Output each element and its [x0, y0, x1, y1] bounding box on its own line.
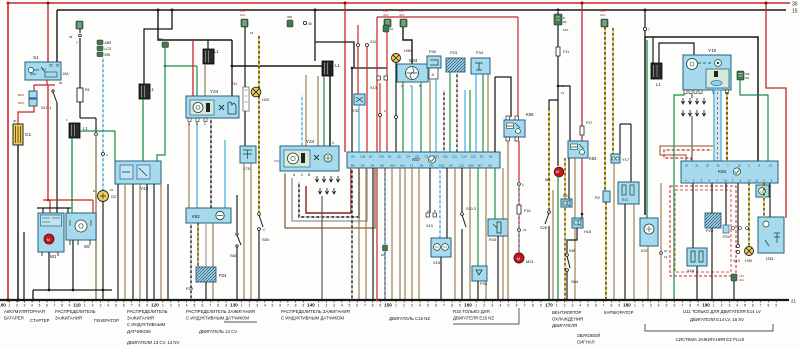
wire horizontal to generator — [80, 117, 96, 119]
svg-text:2: 2 — [248, 304, 250, 308]
svg-text:S10.3: S10.3 — [466, 207, 476, 211]
svg-text:6: 6 — [46, 304, 48, 308]
wire X18 to rail — [696, 266, 698, 300]
junction — [250, 299, 252, 301]
svg-text:H20: H20 — [262, 97, 270, 102]
screen wire dark red U — [306, 167, 351, 213]
svg-text:30: 30 — [13, 119, 17, 123]
junction — [344, 2, 347, 5]
svg-text:7: 7 — [131, 304, 133, 308]
wire red below S1 — [34, 84, 55, 86]
svg-text:X13: X13 — [370, 86, 377, 90]
svg-text:M21: M21 — [526, 259, 535, 264]
wire yellow-black below R2 — [605, 202, 607, 300]
wire red to X57 — [366, 47, 368, 152]
junction — [497, 299, 499, 301]
wire black to X57 — [351, 68, 353, 152]
wire K84 to P24 — [725, 183, 727, 225]
svg-text:GN: GN — [745, 76, 749, 80]
wire P34 cyan — [475, 74, 477, 152]
junction — [124, 299, 126, 301]
wire yellow-black below K63 — [564, 158, 566, 300]
wire red-cyan to F16 — [518, 186, 520, 205]
svg-text:7: 7 — [648, 28, 650, 32]
wire R15 to rail — [497, 236, 499, 300]
Y23 internals — [120, 165, 133, 179]
svg-text:9: 9 — [302, 304, 304, 308]
switch S60 — [236, 233, 238, 235]
fuel pump M21 — [514, 253, 524, 263]
svg-text:ДВИГАТЕЛЯ: ДВИГАТЕЛЯ — [552, 323, 577, 328]
svg-text:3: 3 — [333, 304, 335, 308]
svg-text:7: 7 — [681, 304, 683, 308]
wire cyan Y32 to X57 — [358, 105, 360, 152]
junction — [146, 299, 148, 301]
svg-text:11: 11 — [755, 179, 758, 183]
svg-text:2: 2 — [92, 304, 94, 308]
wire brown to rail — [95, 136, 97, 300]
svg-text:5: 5 — [272, 304, 274, 308]
junction — [258, 299, 260, 301]
wire carb top — [620, 123, 631, 125]
wire branch to S26 — [549, 100, 558, 108]
relay K58 — [504, 120, 525, 137]
wire to M1 — [49, 200, 51, 213]
wire to S6 — [92, 200, 94, 213]
wire into distributor — [231, 66, 233, 96]
wire red to starter feed — [47, 85, 49, 200]
wire R1 down — [79, 102, 81, 118]
wire red enclosure right to K58 — [517, 17, 519, 117]
wire green coil to S6 — [71, 138, 73, 213]
svg-text:D+: D+ — [93, 189, 97, 193]
wire M4 to rail — [557, 176, 559, 300]
wire blue-white dashed diagnostic — [102, 57, 104, 152]
svg-text:D2: D2 — [480, 155, 484, 159]
Y10 internals — [687, 59, 698, 70]
svg-text:8: 8 — [61, 304, 63, 308]
svg-text:7: 7 — [287, 304, 289, 308]
junction — [102, 299, 104, 301]
svg-text:B5: B5 — [380, 164, 384, 168]
sensor P23 mid — [446, 58, 465, 72]
svg-text:140: 140 — [307, 303, 315, 308]
wire F27 to K63 — [581, 135, 583, 141]
wire brown below K58 — [507, 141, 509, 300]
svg-text:16: 16 — [664, 249, 668, 253]
distributor Y26 — [186, 96, 239, 118]
svg-text:РАСПРЕДЕЛИТЕЛЬ ЗАЖИГАНИЯ: РАСПРЕДЕЛИТЕЛЬ ЗАЖИГАНИЯ — [186, 309, 255, 314]
screened cyan cable — [714, 90, 721, 161]
svg-text:D10: D10 — [439, 164, 445, 168]
svg-text:7: 7 — [760, 304, 762, 308]
svg-text:ГЕНЕРАТОР: ГЕНЕРАТОР — [94, 318, 119, 323]
svg-text:LCD: LCD — [105, 47, 112, 51]
pin — [515, 116, 518, 120]
wire red 30 to X57 — [344, 3, 346, 152]
svg-text:15: 15 — [56, 64, 60, 68]
svg-text:13: 13 — [769, 164, 773, 168]
wire branch — [95, 118, 97, 132]
svg-text:8: 8 — [138, 304, 140, 308]
svg-text:M: M — [517, 256, 520, 261]
junction — [485, 299, 487, 301]
wire exciter horizontal — [37, 207, 71, 209]
S1 internals — [28, 67, 33, 72]
wire to fan M4 — [557, 12, 559, 166]
wire terminal 50 to starter — [56, 103, 58, 213]
wire K84 to X13 — [737, 183, 739, 244]
wire to connector — [33, 85, 35, 91]
icon INS left — [162, 42, 169, 48]
wire 15 to ignition switch — [56, 10, 58, 62]
svg-text:СТАРТЕР: СТАРТЕР — [30, 318, 50, 323]
wire — [399, 168, 401, 300]
svg-text:R1: R1 — [85, 88, 90, 92]
connector — [379, 114, 382, 117]
wire green from INS — [164, 48, 166, 66]
svg-text:БАТАРЕЯ: БАТАРЕЯ — [4, 316, 24, 321]
svg-text:61: 61 — [250, 31, 254, 35]
connector X13 right — [736, 244, 739, 247]
EZ section frame — [645, 37, 758, 215]
X18 internals — [691, 251, 695, 262]
svg-text:7: 7 — [54, 304, 56, 308]
svg-text:C16: C16 — [360, 155, 366, 159]
svg-text:10: 10 — [685, 164, 689, 168]
wire grey — [205, 223, 207, 267]
svg-text:S1: S1 — [33, 55, 39, 60]
pin X13 A — [426, 213, 429, 217]
wire — [411, 168, 413, 300]
svg-text:8: 8 — [372, 304, 374, 308]
junction — [552, 299, 554, 301]
svg-text:X13: X13 — [426, 224, 433, 228]
distributor Y24 — [280, 146, 339, 171]
icon D DF — [554, 14, 562, 25]
resistor R1 — [77, 88, 83, 102]
wire K84 to P23 — [711, 183, 713, 213]
svg-text:9: 9 — [775, 304, 777, 308]
svg-text:7: 7 — [76, 41, 78, 45]
connector — [461, 213, 464, 216]
pin — [506, 116, 509, 120]
wire P23 green — [449, 72, 451, 152]
wire black-white dashed to rail — [190, 223, 192, 300]
svg-text:9: 9 — [225, 304, 227, 308]
svg-text:7: 7 — [524, 304, 526, 308]
Y17 internals — [612, 157, 615, 160]
wire — [153, 184, 155, 300]
svg-text:K58: K58 — [526, 112, 534, 117]
svg-text:РАСПРЕДЕЛИТЕЛЬ: РАСПРЕДЕЛИТЕЛЬ — [127, 309, 168, 314]
svg-text:30A: 30A — [600, 13, 605, 17]
wire bend to K58 — [495, 77, 511, 117]
spark plug arrows Y24 row2 — [318, 188, 321, 194]
svg-text:C3: C3 — [425, 155, 429, 159]
wire — [167, 184, 169, 300]
svg-text:G1: G1 — [25, 132, 32, 137]
svg-text:21: 21 — [791, 299, 797, 304]
relay K75 — [240, 146, 256, 163]
wire red X13 to X57 — [379, 83, 381, 152]
junction — [548, 299, 550, 301]
ignition distributor S6 — [66, 213, 96, 240]
wire red enclosure top — [377, 16, 518, 18]
svg-text:4: 4 — [736, 304, 738, 308]
junction — [171, 9, 174, 12]
svg-text:5: 5 — [194, 304, 196, 308]
wire S1 down — [46, 80, 48, 85]
svg-text:F11: F11 — [563, 50, 569, 54]
icon INS GN — [287, 20, 293, 27]
svg-text:R12: R12 — [622, 198, 628, 202]
screen terminal icon — [383, 245, 388, 251]
S6 pin stubs — [70, 240, 90, 245]
junction — [477, 299, 479, 301]
junction — [557, 9, 560, 12]
svg-text:4: 4 — [186, 304, 188, 308]
svg-text:M1: M1 — [50, 254, 57, 259]
K53 internals — [216, 211, 224, 219]
horn H18 — [572, 218, 583, 228]
svg-text:100: 100 — [0, 303, 6, 308]
svg-text:15A: 15A — [63, 72, 70, 76]
wire starter ground — [48, 252, 50, 290]
pin X13 a — [377, 76, 380, 80]
wire cyan Y26 to K53 — [196, 122, 198, 208]
svg-text:30A: 30A — [399, 13, 404, 17]
wire K58 to F16 — [518, 141, 520, 182]
burn-off relay K20 — [640, 218, 658, 246]
bus 15 (black) — [57, 9, 786, 11]
svg-text:ЗВУКОВОЙ: ЗВУКОВОЙ — [577, 333, 600, 338]
svg-text:L1: L1 — [335, 63, 340, 68]
svg-text:1: 1 — [713, 304, 715, 308]
wire feeder black-white — [443, 90, 445, 152]
pin X13 b — [384, 76, 387, 80]
svg-text:16: 16 — [724, 179, 728, 183]
svg-text:9: 9 — [146, 304, 148, 308]
fuse F16 — [517, 205, 521, 214]
wire P33 to rail — [477, 281, 479, 300]
wire — [502, 168, 504, 300]
svg-text:8: 8 — [610, 304, 612, 308]
svg-text:5: 5 — [349, 304, 351, 308]
battery G1 — [13, 124, 23, 145]
svg-text:X57: X57 — [412, 157, 421, 162]
junction — [102, 289, 105, 292]
valve Y17 — [611, 154, 620, 163]
M33 internals — [406, 67, 419, 80]
wire — [358, 168, 360, 300]
svg-text:G: G — [761, 190, 764, 194]
wire distributor ground — [72, 240, 74, 290]
wire K84 to X18 — [692, 183, 694, 248]
wire battery positive red — [7, 3, 9, 300]
sensor P33 — [472, 266, 487, 281]
X15 internals — [434, 244, 441, 251]
screen wire red dashed above K84 — [664, 150, 712, 161]
svg-text:M: M — [47, 237, 50, 242]
svg-text:130: 130 — [230, 303, 238, 308]
wire chassis ground 31 — [23, 232, 25, 300]
ignition coil L1 c — [203, 49, 214, 64]
resistor block R12 — [618, 182, 639, 204]
wire brown below K75 2 — [250, 163, 252, 300]
svg-text:B6: B6 — [351, 164, 355, 168]
fan motor M33 — [397, 64, 428, 82]
svg-text:1: 1 — [395, 304, 397, 308]
svg-text:15: 15 — [738, 164, 742, 168]
svg-text:1: 1 — [522, 183, 524, 187]
wire stub Y10 — [691, 94, 693, 98]
junction — [365, 299, 367, 301]
svg-text:G2: G2 — [111, 194, 117, 199]
connector — [660, 252, 663, 255]
svg-text:90: 90 — [59, 81, 63, 85]
svg-text:190: 190 — [702, 303, 710, 308]
wire P30 brown — [429, 79, 431, 152]
svg-text:INS: INS — [287, 15, 292, 19]
svg-text:L1: L1 — [149, 87, 154, 92]
wire H18 to S64 — [567, 228, 577, 253]
svg-text:D6: D6 — [420, 164, 424, 168]
svg-text:7: 7 — [443, 304, 445, 308]
junction — [321, 299, 324, 302]
K63 internals — [571, 144, 578, 150]
junction — [16, 298, 19, 301]
svg-text:16: 16 — [523, 228, 527, 232]
junction — [581, 2, 584, 5]
junction — [132, 299, 134, 301]
sensor G right — [756, 185, 769, 197]
control unit X57 — [347, 152, 500, 168]
svg-text:5: 5 — [508, 304, 510, 308]
wire P30 cyan — [435, 79, 437, 152]
svg-text:B7: B7 — [369, 155, 373, 159]
svg-text:ДВИГАТЕЛИ 13 CV, 14 NV: ДВИГАТЕЛИ 13 CV, 14 NV — [127, 340, 180, 345]
wire to resistor R1 — [79, 38, 81, 88]
svg-text:6: 6 — [516, 304, 518, 308]
wire S26 to rail — [548, 226, 550, 300]
svg-text:H18: H18 — [584, 230, 591, 234]
wire brown below K63 — [574, 158, 576, 300]
wire — [391, 168, 393, 300]
svg-text:DF: DF — [563, 20, 567, 24]
wire black-white dashed — [210, 118, 212, 208]
junction — [469, 299, 471, 301]
svg-text:ВЕНТИЛЯТОР: ВЕНТИЛЯТОР — [552, 310, 582, 315]
switch blade S1 — [52, 90, 54, 92]
junction — [47, 199, 50, 202]
starter M1 — [38, 213, 64, 252]
junction — [765, 2, 768, 5]
junction — [557, 85, 560, 88]
wire — [404, 168, 406, 300]
junction — [644, 9, 647, 12]
fan motor M4 — [554, 167, 564, 177]
wire yellow-black K84 to H30 — [748, 183, 750, 246]
connector S10.1 upper — [29, 91, 37, 98]
switch S64 — [567, 256, 570, 268]
wire — [139, 184, 141, 300]
spark plug arrows Y10 row1 — [681, 98, 684, 104]
sensor P34 — [471, 58, 490, 74]
wire P34 brown — [487, 74, 489, 152]
svg-text:C7A: C7A — [379, 155, 385, 159]
wire red enclosure left lower — [376, 167, 378, 300]
wire M33 green — [402, 82, 404, 152]
junction — [461, 299, 463, 301]
Y24 internals — [284, 150, 310, 167]
wire feeder green — [469, 90, 471, 152]
control unit K84 — [681, 161, 778, 183]
wire green to Y23 — [114, 131, 116, 161]
wire blue-white dashed to generator — [102, 156, 104, 190]
wire red bus to X11 — [357, 25, 359, 43]
svg-text:150: 150 — [384, 303, 392, 308]
junction — [418, 299, 420, 301]
bottom rail — [0, 299, 789, 301]
svg-text:С ИНДУКТИВНЫМ ДАТЧИКОМ: С ИНДУКТИВНЫМ ДАТЧИКОМ — [186, 316, 249, 321]
svg-text:B10: B10 — [469, 164, 474, 168]
svg-text:С ИНДУКТИВНЫМ ДАТЧИКОМ: С ИНДУКТИВНЫМ ДАТЧИКОМ — [281, 316, 344, 321]
svg-text:3: 3 — [728, 304, 730, 308]
lamp H30 right — [745, 247, 754, 256]
svg-text:3: 3 — [99, 304, 101, 308]
sensor P23 right — [705, 213, 721, 228]
svg-text:B7: B7 — [478, 164, 482, 168]
svg-text:P23: P23 — [706, 228, 714, 233]
wire battery to S10.1 — [18, 106, 34, 124]
svg-text:180: 180 — [623, 303, 631, 308]
junction — [372, 299, 374, 301]
wire green coil d to Y24 — [323, 76, 325, 146]
svg-text:A5: A5 — [388, 155, 392, 159]
svg-text:Y24: Y24 — [306, 139, 315, 144]
connector 45 — [303, 21, 306, 24]
wire green to Y23 right — [157, 66, 165, 161]
wire stub Y24 — [274, 160, 280, 162]
svg-text:ДАТЧИКОМ: ДАТЧИКОМ — [127, 329, 151, 334]
svg-text:13: 13 — [747, 179, 751, 183]
lamp H30 mid — [392, 54, 401, 63]
pin — [515, 137, 518, 141]
svg-text:B: B — [308, 173, 310, 177]
wire brown coil to Y26 — [204, 64, 206, 96]
svg-text:C14: C14 — [461, 155, 467, 159]
caption bracket — [224, 321, 257, 323]
wire P23 to rail — [711, 228, 713, 300]
ignition module Y10 — [683, 55, 731, 90]
svg-text:5: 5 — [39, 304, 41, 308]
screen wire brown above K84 — [660, 146, 714, 161]
svg-text:14: 14 — [664, 255, 668, 259]
wire cyan-red screened lower — [384, 252, 386, 300]
P33 internals — [476, 270, 482, 275]
connector X18 — [687, 248, 707, 266]
wire 30 to ignition switch — [47, 3, 49, 62]
connector row circles — [732, 227, 735, 230]
svg-text:15A: 15A — [563, 28, 568, 32]
wire to Y24 pin4 — [329, 66, 331, 146]
wire X57 to K58 control — [494, 77, 496, 152]
svg-text:F27: F27 — [586, 121, 593, 125]
svg-text:H30: H30 — [404, 48, 412, 53]
svg-text:Y10: Y10 — [708, 48, 717, 53]
junction — [566, 299, 568, 301]
